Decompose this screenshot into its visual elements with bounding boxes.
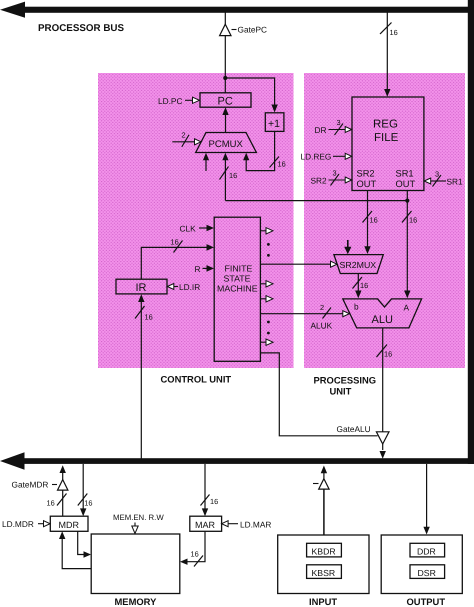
svg-text:KBDR: KBDR: [312, 546, 336, 556]
processing unit shaded region: [304, 73, 465, 368]
svg-text:LD.MAR: LD.MAR: [240, 519, 271, 529]
output OUTPUT: [381, 535, 462, 594]
svg-text:16: 16: [384, 350, 392, 359]
svg-text:OUTPUT: OUTPUT: [407, 596, 446, 607]
mux SR2MUX: [334, 255, 383, 274]
svg-text:16: 16: [210, 497, 218, 506]
svg-text:2: 2: [182, 131, 186, 140]
svg-text:DDR: DDR: [417, 546, 436, 556]
label LD.REG: [301, 152, 352, 162]
svg-text:LD.IR: LD.IR: [179, 282, 200, 292]
wire bus to register file, width 16: [380, 12, 398, 97]
svg-text:3: 3: [337, 118, 341, 127]
label LD.MDR: [2, 519, 50, 529]
label CLK input: [180, 224, 215, 234]
svg-text:SR2: SR2: [311, 176, 328, 186]
svg-text:MEMORY: MEMORY: [115, 596, 158, 607]
wire bus width 16 into PCMUX middle input: [220, 153, 238, 201]
svg-text:MEM.EN. R.W: MEM.EN. R.W: [113, 513, 164, 522]
FSM output 4: [260, 339, 273, 345]
wire ALU output, width 16: [377, 328, 393, 432]
register file: [352, 97, 424, 191]
svg-text:LD.PC: LD.PC: [158, 96, 182, 106]
svg-text:MDR: MDR: [59, 520, 80, 530]
control unit shaded region: [98, 73, 294, 368]
label SR1 select 3: [424, 170, 463, 187]
svg-text:STATE: STATE: [224, 274, 251, 284]
svg-text:GatePC: GatePC: [238, 25, 268, 35]
wire MEMORY to MDR: [59, 531, 91, 568]
wire FSM to GateALU control: [260, 353, 377, 436]
svg-text:16: 16: [370, 216, 378, 225]
svg-text:DR: DR: [315, 125, 327, 135]
svg-text:16: 16: [84, 499, 92, 508]
wire INPUT to bus via gate: [313, 466, 327, 536]
svg-text:b: b: [354, 302, 359, 312]
svg-text:16: 16: [409, 216, 417, 225]
incrementer +1: [265, 113, 284, 132]
wire MDR to MEMORY: [78, 531, 91, 557]
wire IR to FSM, width 16: [141, 238, 214, 280]
register PC: [200, 93, 251, 107]
mux PCMUX: [196, 133, 257, 153]
svg-text:ALUK: ALUK: [311, 321, 333, 331]
register DSR: [410, 565, 445, 579]
system bus (bottom): [0, 452, 474, 470]
label DR select 3: [315, 118, 352, 135]
svg-text:GateMDR: GateMDR: [12, 480, 49, 490]
register MAR: [190, 516, 222, 531]
wire MDR to bus via GateMDR: [47, 465, 67, 516]
svg-text:PC: PC: [218, 95, 233, 107]
svg-text:16: 16: [171, 238, 179, 247]
svg-text:PROCESSOR BUS: PROCESSOR BUS: [38, 23, 124, 34]
wire FSM select to SR2MUX: [260, 261, 337, 267]
svg-text:ALU: ALU: [372, 314, 393, 326]
svg-text:UNIT: UNIT: [330, 386, 352, 397]
svg-text:GateALU: GateALU: [337, 424, 371, 434]
memory MEMORY: [91, 534, 180, 594]
wire MAR to MEMORY, width 16: [180, 531, 205, 566]
svg-text:A: A: [404, 303, 410, 313]
label LD.PC: [158, 96, 200, 106]
svg-text:PROCESSING: PROCESSING: [314, 375, 377, 386]
svg-text:16: 16: [47, 499, 55, 508]
label GatePC: [232, 25, 268, 35]
svg-text:16: 16: [278, 160, 286, 169]
register KBSR: [307, 565, 342, 579]
svg-text:LD.MDR: LD.MDR: [2, 519, 34, 529]
svg-text:16: 16: [360, 281, 368, 290]
svg-text:16: 16: [191, 550, 199, 559]
FSM output 2: [260, 281, 273, 287]
svg-text:OUT: OUT: [396, 179, 416, 189]
wire SR1 OUT to PCMUX (horizontal): [225, 200, 407, 202]
wire incrementer to PCMUX right input: [243, 132, 286, 171]
wire SR2MUX to ALU B, width 16: [353, 274, 369, 299]
register MDR: [50, 516, 88, 531]
dots: [267, 243, 270, 246]
svg-text:KBSR: KBSR: [312, 568, 336, 578]
register KBDR: [307, 543, 342, 557]
wire SR2 OUT to SR2MUX, width 16: [363, 191, 378, 255]
label R input: [195, 264, 215, 274]
gate GateALU: [376, 432, 389, 444]
label MEM.EN. R.W: [113, 513, 164, 534]
svg-text:FILE: FILE: [374, 132, 399, 144]
alu ALU: [343, 299, 422, 328]
junction SR1 OUT / PCMUX wire: [405, 199, 409, 203]
svg-text:3: 3: [435, 170, 439, 179]
FSM output 1: [260, 228, 273, 234]
wire FSM ALUK select 2 to ALU: [260, 303, 349, 331]
input INPUT: [278, 535, 369, 594]
wire bus to IR, width 16: [135, 294, 153, 458]
FSM output 3: [260, 296, 273, 302]
svg-text:SR2MUX: SR2MUX: [340, 260, 377, 270]
wire GateALU to bus: [382, 444, 384, 450]
gate GatePC: [220, 24, 231, 35]
svg-text:2: 2: [320, 303, 324, 312]
junction PC/incrementer: [223, 76, 227, 80]
wire bus to MDR, width 16: [78, 464, 93, 516]
svg-text:3: 3: [333, 169, 337, 178]
label GateMDR: [12, 480, 58, 490]
svg-text:DSR: DSR: [418, 568, 436, 578]
register IR: [116, 279, 167, 294]
svg-text:PCMUX: PCMUX: [209, 139, 244, 150]
svg-text:R: R: [195, 264, 201, 274]
wire PCMUX to PC: [225, 114, 227, 133]
svg-text:MACHINE: MACHINE: [217, 284, 258, 294]
label LD.MAR: [222, 519, 272, 529]
svg-text:+1: +1: [268, 118, 280, 130]
wire junction to incrementer: [225, 78, 274, 106]
svg-text:MAR: MAR: [195, 520, 216, 530]
svg-text:IR: IR: [136, 282, 147, 294]
wire bus to OUTPUT: [423, 464, 429, 535]
svg-text:REG: REG: [373, 119, 398, 131]
wire bus to PC: [224, 12, 226, 93]
svg-text:16: 16: [145, 313, 153, 322]
svg-text:SR2: SR2: [357, 169, 375, 179]
label LD.IR: [167, 282, 200, 292]
wire bus to MAR, width 16: [201, 464, 219, 516]
wire SR1 OUT down to ALU A, width 16: [402, 191, 417, 299]
processor bus (top): [0, 2, 474, 18]
svg-text:FINITE: FINITE: [225, 264, 253, 274]
wire select 2 into PCMUX: [172, 131, 201, 147]
dots: [267, 321, 270, 324]
svg-text:SR1: SR1: [396, 169, 414, 179]
svg-text:CLK: CLK: [180, 224, 197, 234]
wire stub into PCMUX left input: [205, 158, 207, 171]
register DDR: [410, 543, 445, 557]
svg-text:16: 16: [229, 171, 237, 180]
svg-text:SR1: SR1: [447, 177, 464, 187]
gate GateMDR: [58, 480, 68, 491]
svg-text:INPUT: INPUT: [309, 596, 337, 607]
svg-text:OUT: OUT: [357, 179, 377, 189]
label SR2 select 3: [311, 169, 352, 186]
wire stub into SR2MUX left input: [347, 240, 349, 248]
state machine FSM: [214, 217, 260, 361]
svg-text:16: 16: [390, 28, 398, 37]
right bus riser: [468, 0, 474, 464]
svg-text:CONTROL UNIT: CONTROL UNIT: [161, 374, 232, 385]
svg-text:LD.REG: LD.REG: [301, 152, 332, 162]
gate input gate: [319, 479, 329, 489]
